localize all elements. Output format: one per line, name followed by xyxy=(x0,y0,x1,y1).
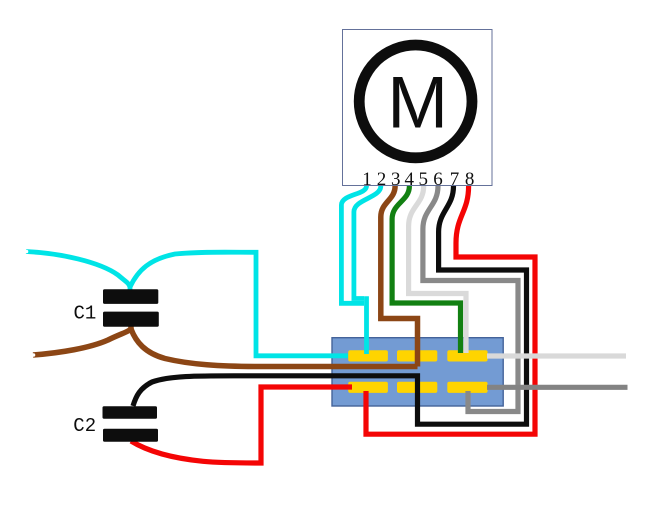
wire cyan C1 left lead xyxy=(26,252,130,288)
wire pin5 white to T3 xyxy=(409,186,466,353)
capacitor C2 bottom plate xyxy=(103,429,158,442)
terminal T4 xyxy=(348,382,388,393)
wire cyan junction drop to T1 xyxy=(364,296,369,354)
wire pin7 black to C2 top xyxy=(133,186,527,424)
wire pin8 red to T4 xyxy=(366,186,535,434)
wire cyan joint stub at C1 xyxy=(128,283,133,292)
wire pin4 green to T3 xyxy=(392,186,460,353)
motor enclosure box xyxy=(343,30,493,186)
wire white output (right) xyxy=(487,353,626,358)
wire brown C1 to junction xyxy=(131,329,418,367)
svg-text:C2: C2 xyxy=(73,415,96,437)
brown lead bare tip xyxy=(32,353,36,357)
wire red C2 bottom to T4 xyxy=(131,387,352,463)
terminal T6 xyxy=(447,382,487,393)
wire gray output (right) xyxy=(487,385,628,390)
svg-text:M: M xyxy=(387,63,448,144)
capacitor C1 top plate xyxy=(103,289,158,304)
cyan lead bare tip xyxy=(25,250,29,254)
terminal T2 xyxy=(397,350,437,361)
wire brown joint stub at C1 xyxy=(128,324,134,333)
capacitor C1 bottom plate xyxy=(103,312,159,327)
terminal T1 xyxy=(348,350,388,361)
wire brown C1 left lead xyxy=(33,329,131,355)
terminal block TB1 xyxy=(332,338,503,406)
capacitor C2 top plate xyxy=(103,406,158,419)
svg-text:C1: C1 xyxy=(74,302,97,324)
wire pin1 cyan xyxy=(341,186,366,303)
motor M1 circle xyxy=(359,45,472,158)
wire pin3 brown to T2 and C1 xyxy=(381,186,418,367)
wire pin6 gray to T6 xyxy=(423,186,518,412)
wire pin2 cyan xyxy=(354,186,381,299)
terminal T5 xyxy=(397,382,437,393)
wire cyan C1 to T1 xyxy=(130,252,348,356)
terminal T3 xyxy=(447,350,487,361)
